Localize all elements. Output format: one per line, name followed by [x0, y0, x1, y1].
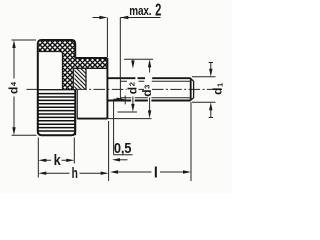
dimension d4 line and arrows — [13, 44, 15, 131]
svg-text:0,5: 0,5 — [114, 141, 132, 157]
dimension h right extension — [108, 121, 110, 181]
dimension d3 bottom arrow — [149, 98, 151, 112]
dimension h line and arrows — [46, 172, 101, 174]
0,5 leader vertical — [113, 99, 115, 154]
dimension max.2 arrows — [93, 17, 161, 19]
end chamfer — [191, 78, 194, 100]
svg-text:l: l — [154, 165, 158, 182]
stud hole edge under hub band — [73, 67, 107, 69]
wall inner vertical — [72, 68, 74, 89]
dimension d3 top arrow — [149, 67, 151, 73]
dimension d1 extension lines — [192, 77, 216, 103]
dimension d2 top arrow — [132, 59, 134, 62]
head section crosshatch (plastic knurled head, L-shaped cut area) — [39, 40, 108, 90]
svg-text:d4: d4 — [6, 81, 20, 94]
0,5 tick — [124, 96, 126, 105]
thread start line — [119, 78, 121, 100]
head right edge (bottom half, rim) — [74, 90, 76, 136]
head cavity inner edges — [39, 52, 63, 90]
svg-text:max.: max. — [129, 5, 151, 18]
dimension l line and arrows — [118, 171, 184, 173]
dimension d4 extension lines — [12, 40, 37, 135]
svg-text:d1: d1 — [211, 83, 225, 95]
thread end face — [190, 78, 192, 100]
dimension k extension lines — [38, 138, 74, 178]
shank outline — [107, 78, 190, 100]
svg-text:h: h — [72, 164, 78, 182]
steel stud flange section hatch (diagonal) — [74, 69, 86, 90]
0,5 leader arrow to thread start — [114, 98, 118, 100]
centerline — [27, 88, 223, 90]
hub left edge bottom half — [76, 90, 78, 119]
hub right edge — [106, 58, 108, 119]
svg-text:d3: d3 — [140, 85, 154, 97]
svg-text:d2: d2 — [126, 82, 140, 94]
d2 bottom extension line — [118, 111, 138, 113]
section boundary line at axis inside head — [38, 89, 75, 91]
dimension k line and arrows — [46, 159, 67, 161]
thread minor diameter lines — [120, 81, 190, 97]
head outline — [38, 40, 75, 135]
dimension max.2 extension verticals — [107, 18, 120, 79]
0,5 small dimension arrow — [120, 159, 128, 161]
hub bottom edge — [77, 118, 107, 120]
shared top extension line for d2/d3 — [124, 58, 153, 60]
dimension d1 overshoot ticks — [209, 63, 213, 118]
stud left edge — [85, 68, 87, 89]
svg-text:k: k — [54, 151, 61, 168]
dimension l right extension — [190, 102, 192, 181]
hub top edge — [75, 57, 107, 59]
svg-text:2: 2 — [155, 1, 161, 20]
dimension d1 arrows — [210, 63, 212, 118]
knurl texture lines — [38, 94, 74, 131]
dimension d2 bottom arrow — [132, 97, 134, 105]
d3 bottom extension line (hub bottom extended) — [107, 118, 151, 120]
